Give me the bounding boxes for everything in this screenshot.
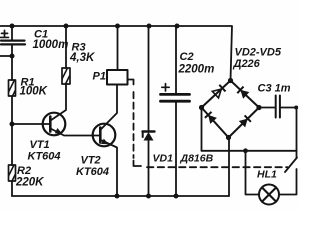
svg-text:C3 1m: C3 1m [258, 83, 291, 95]
svg-text:Д816В: Д816В [180, 153, 214, 165]
svg-text:KT604: KT604 [28, 151, 61, 163]
svg-text:P1: P1 [93, 71, 106, 83]
svg-text:VT1: VT1 [30, 139, 50, 151]
svg-text:4,3K: 4,3K [69, 52, 95, 64]
svg-text:KT604: KT604 [76, 166, 109, 178]
svg-text:1000m: 1000m [33, 39, 69, 51]
svg-text:Д226: Д226 [233, 58, 261, 70]
svg-text:R2: R2 [17, 165, 31, 177]
svg-text:2200m: 2200m [178, 64, 215, 76]
svg-text:C2: C2 [180, 51, 194, 63]
svg-text:VT2: VT2 [81, 154, 101, 166]
svg-text:220K: 220K [15, 177, 44, 189]
svg-text:100K: 100K [20, 85, 48, 97]
svg-text:VD2-VD5: VD2-VD5 [235, 46, 282, 58]
svg-text:VD1: VD1 [153, 152, 174, 164]
svg-text:HL1: HL1 [257, 168, 277, 180]
